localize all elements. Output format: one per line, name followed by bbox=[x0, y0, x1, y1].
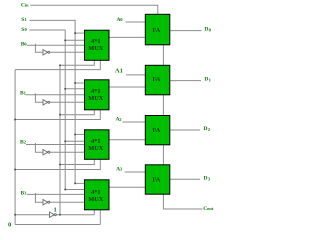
svg-text:in: in bbox=[25, 3, 29, 8]
svg-text:MUX: MUX bbox=[88, 95, 103, 102]
svg-text:4*1: 4*1 bbox=[91, 189, 100, 196]
svg-text:FA: FA bbox=[152, 27, 160, 34]
svg-text:4*1: 4*1 bbox=[91, 38, 100, 45]
svg-text:FA: FA bbox=[152, 127, 160, 134]
svg-text:1: 1 bbox=[54, 207, 57, 214]
svg-text:out: out bbox=[207, 206, 214, 211]
svg-text:FA: FA bbox=[152, 76, 160, 83]
svg-text:MUX: MUX bbox=[88, 145, 103, 152]
svg-text:FA: FA bbox=[152, 177, 160, 184]
svg-text:MUX: MUX bbox=[88, 196, 103, 203]
svg-text:MUX: MUX bbox=[88, 45, 103, 52]
svg-text:A1: A1 bbox=[115, 67, 123, 74]
